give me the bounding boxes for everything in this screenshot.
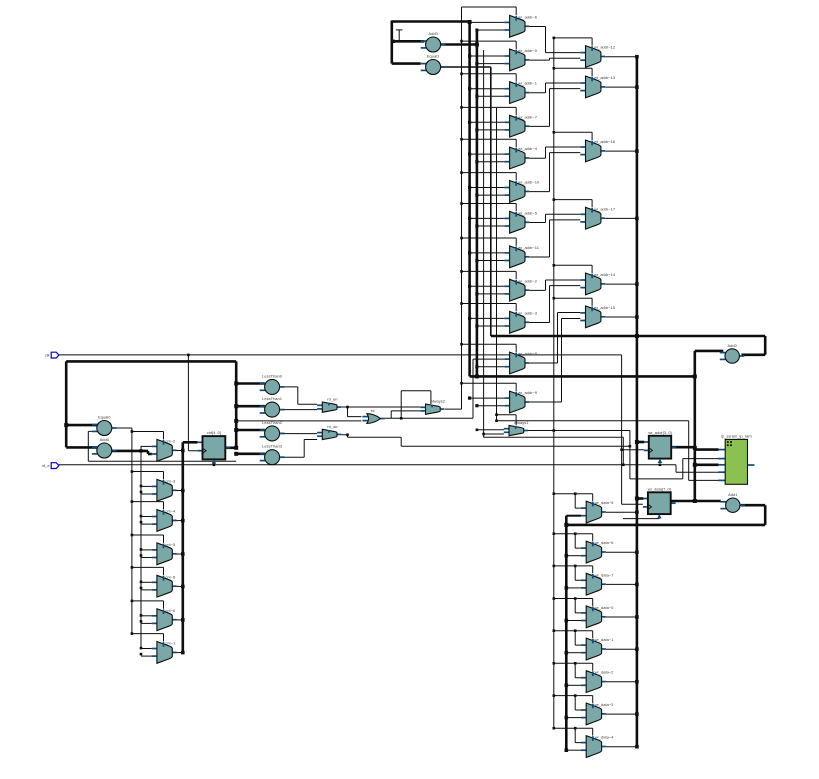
svg-text:rd: rd [371, 408, 375, 413]
mux U_L7 [504, 217, 509, 219]
wire wr_data~2 bottom in [566, 684, 581, 686]
svg-text:always1: always1 [514, 420, 529, 425]
input pin rd_e [51, 463, 59, 469]
junction out d5 [635, 510, 639, 514]
svg-text:wr_addr~4: wr_addr~4 [518, 146, 538, 151]
junction L12 bottom in [475, 404, 478, 407]
junction bin d7 [565, 586, 569, 590]
wire select mux L3 [462, 74, 517, 82]
wire wr_data~4 bottom in [566, 749, 581, 751]
mux U_R5 [580, 279, 585, 281]
wire cnt~5 output [172, 553, 183, 555]
wire L7 out to R4 [529, 214, 580, 222]
junction reg1 out [693, 446, 697, 450]
junction rd_do out [346, 434, 349, 437]
wire cnt bus V236 [235, 361, 238, 447]
svg-text:wr_addr~9: wr_addr~9 [518, 390, 538, 395]
junction sel d6 [553, 532, 556, 535]
junction T/Add3 [392, 40, 395, 43]
ram lp_ssram_lp_ram [718, 449, 725, 451]
junction cnt reg out [234, 446, 238, 450]
wire R1 output [605, 56, 637, 58]
wire reg2 data tap [637, 497, 644, 500]
wire L2 top input [470, 55, 505, 57]
junction V566 Add1 [564, 523, 568, 527]
wire select cnt~4 [132, 502, 164, 510]
wire or input2 [236, 420, 361, 422]
wire to Add0 input [66, 446, 97, 449]
wire select wr_data~1 [554, 631, 593, 638]
wire wr_data~6 output [606, 551, 637, 553]
svg-text:clk: clk [45, 353, 50, 358]
wire cnt~8 output [172, 652, 183, 654]
svg-text:wr_addr~2: wr_addr~2 [518, 278, 538, 283]
svg-text:wr_addr~13: wr_addr~13 [594, 75, 616, 80]
wire reg1 data tap [637, 441, 644, 444]
operator Add3 [421, 40, 427, 42]
wire cnt to LessThan0 [236, 382, 265, 385]
svg-text:wr_data~0: wr_data~0 [595, 605, 615, 610]
wire select mux L4 [462, 107, 517, 115]
junction select L6 [460, 171, 463, 174]
junction select R3 [553, 131, 556, 134]
junction tin d5 [574, 492, 577, 495]
junction select L4 [460, 106, 463, 109]
wire R5 output [605, 283, 637, 285]
junction reg1 data [635, 440, 639, 444]
mux U_C2 [152, 485, 157, 487]
wire cnt input V141 [140, 446, 142, 648]
wire L11 bottom input [477, 366, 505, 368]
wire cnt~6 top input [141, 581, 152, 583]
junction Add3 out [475, 43, 479, 47]
junction sel d0 [553, 597, 556, 600]
wire cnt~4 output [172, 520, 183, 522]
wire wr_data~0 top in [575, 599, 581, 613]
junction cnt~8 out [181, 651, 185, 655]
wire clk net [59, 354, 622, 356]
junction or out branch [400, 417, 403, 420]
mux rd_en gate [317, 404, 322, 406]
junction cnt LessThan1 [234, 404, 238, 408]
mux U_L4 [504, 121, 509, 123]
junction L2 bottom in [475, 62, 478, 65]
wire clk to wr_data reg [622, 503, 643, 505]
junction select L5 [460, 138, 463, 141]
junction tin d4 [574, 727, 577, 730]
wire cnt reg data [183, 441, 198, 444]
svg-text:cnt~6: cnt~6 [165, 574, 176, 579]
junction L4 top in [468, 121, 471, 124]
wire select mux R3 [554, 132, 592, 140]
wire select mux L9 [462, 271, 517, 279]
svg-text:LessThan3: LessThan3 [262, 444, 283, 449]
register wr_addr[3..0] [644, 441, 649, 443]
junction y421 [495, 419, 498, 422]
junction bin d3 [565, 716, 569, 720]
wire select mux L5 [462, 139, 517, 147]
junction always1 in1 [476, 429, 479, 432]
svg-text:wr_data~5: wr_data~5 [595, 500, 615, 505]
svg-text:wr_addr~5: wr_addr~5 [518, 210, 538, 215]
wire cnt~7 top input [141, 615, 152, 617]
mux U_D3 [581, 579, 586, 581]
mux U_L6 [504, 187, 509, 189]
wire select wr_data~6 [554, 534, 593, 541]
register wr_data[7..0] [643, 498, 648, 500]
svg-text:wr_addr~3: wr_addr~3 [518, 310, 538, 315]
junction R2 out [635, 85, 639, 89]
junction sel d4 [553, 727, 556, 730]
junction sel d5 [553, 492, 556, 495]
svg-text:LessThan0: LessThan0 [262, 373, 283, 378]
junction L5 top in [468, 153, 471, 156]
junction L8 bottom in [475, 259, 478, 262]
junction tin d6 [574, 532, 577, 535]
wire L10 out to R5 [529, 286, 580, 323]
svg-text:LessThan1: LessThan1 [262, 396, 283, 401]
wire select cnt~5 [132, 535, 164, 543]
junction out d1 [635, 647, 639, 651]
wire Add2 out loop [741, 336, 765, 355]
wire cnt to LessThan1 [236, 405, 265, 408]
svg-text:wr_data~4: wr_data~4 [595, 735, 615, 740]
junction cnt~3 bin [140, 491, 143, 494]
wire clk to cnt reg [188, 355, 197, 451]
wire always2 select [401, 391, 431, 419]
wire rd_e net [59, 464, 676, 466]
junction clk reg1 [620, 448, 623, 451]
mux U_C6 [152, 615, 157, 617]
mux U_D1 [581, 507, 586, 509]
wire select mux L7 [462, 204, 517, 212]
wire wr_data~7 bottom in [566, 587, 581, 589]
wire select wr_data~7 [554, 566, 593, 573]
operator LessThan1 [260, 405, 266, 407]
wire L9 top input [470, 285, 505, 287]
svg-text:wr_data~2: wr_data~2 [595, 670, 615, 675]
wire thick bus y376 [470, 375, 695, 378]
junction cnt~6 tin [140, 581, 143, 584]
junction cnt~3 out [181, 489, 185, 493]
mux U_L3 [504, 88, 509, 90]
junction or in2 [234, 419, 238, 423]
wire cnt~6 bottom input [141, 589, 152, 591]
wire select mux L1 [462, 7, 517, 15]
wire cnt out bus V183 [182, 442, 185, 652]
junction L9 bottom in [475, 292, 478, 295]
mux U_D2 [581, 547, 586, 549]
wire V630 down [629, 446, 631, 479]
wire cnt~4 top input [141, 516, 152, 518]
wire LessThan3 out [280, 440, 318, 458]
junction select L8 [460, 237, 463, 240]
input pin clk [51, 352, 59, 358]
wire always1 in2 [484, 433, 504, 435]
wire select mux L10 [462, 304, 517, 312]
wire L1 bottom input [477, 29, 505, 31]
junction sel cnt~6 [131, 566, 134, 569]
wire R3 output [605, 150, 637, 152]
wire Equal0 bottom link [88, 431, 236, 461]
junction tin d7 [574, 565, 577, 568]
mux U_R2 [580, 82, 585, 84]
wire always2 out [445, 408, 462, 410]
svg-text:rd_e: rd_e [42, 463, 51, 468]
junction L2 top in [468, 54, 471, 57]
wire rd_e to ram [676, 465, 720, 472]
mux U_L1 [504, 21, 509, 23]
junction ram stub3 [693, 463, 697, 467]
junction cnt~5 tin [140, 548, 143, 551]
wire select mux L11 [462, 344, 517, 352]
junction L8 top in [468, 251, 471, 254]
wire L10 top input [470, 317, 505, 319]
junction y336 x637 [635, 334, 639, 338]
junction out d4 [635, 745, 639, 749]
wire output bus V637 [636, 56, 639, 748]
junction L10 top in [468, 317, 471, 320]
wire ram stub1 feed [695, 448, 719, 451]
wire reg2 out to Add1 [671, 500, 721, 503]
mux always1 [504, 428, 509, 430]
junction L6 bottom in [475, 194, 478, 197]
junction cnt~4 bin [140, 521, 143, 524]
wire L3 top input [470, 88, 505, 90]
wire branch to or in1 [348, 407, 362, 417]
junction out d2 [635, 680, 639, 684]
mux U_C1 [152, 445, 157, 447]
svg-text:cnt~1: cnt~1 [165, 641, 176, 646]
wire top-left bus top edge [392, 20, 470, 23]
junction clk branch [187, 354, 190, 357]
wire L4 out to R2 [529, 89, 580, 127]
wire clk V622 [621, 355, 623, 504]
junction cnt~2 out [181, 449, 185, 453]
wire L3 out to R2 [529, 83, 580, 93]
wire cnt~2 output [172, 450, 183, 452]
wire L10 bottom input [477, 325, 505, 327]
wire select bus V461 [461, 7, 463, 409]
wire to Equal0 input [66, 424, 97, 427]
wire L1 top input [470, 21, 505, 23]
wire L7 top input [470, 217, 505, 219]
svg-text:LessThan2: LessThan2 [262, 420, 283, 425]
wire wr_data~5 output [606, 511, 637, 513]
junction V469 top [468, 20, 472, 24]
wire cnt~3 bottom input [141, 493, 152, 495]
wire top-left bus bottom edge to Equal1 [392, 62, 421, 65]
junction select R5 [553, 264, 556, 267]
wire select mux R1 [554, 38, 592, 46]
wire rd_en out to always2 [341, 406, 420, 408]
junction select L3 [460, 73, 463, 76]
mux U_D6 [581, 677, 586, 679]
wire wr_data~7 top in [575, 566, 581, 580]
mux U_D4 [581, 612, 586, 614]
svg-text:lp_ssram_lp_ram: lp_ssram_lp_ram [721, 433, 752, 438]
wire cnt~4 bottom input [141, 523, 152, 525]
wire to Add3 input [392, 40, 425, 43]
svg-text:wr_addr[3..0]: wr_addr[3..0] [648, 430, 671, 435]
operator Add0 [92, 446, 98, 448]
junction sel d7 [553, 565, 556, 568]
svg-text:wr_addr~10: wr_addr~10 [518, 180, 540, 185]
junction cnt~8 bin [140, 653, 143, 656]
junction bin d4 [565, 748, 569, 752]
svg-text:wr_addr~1: wr_addr~1 [518, 81, 538, 86]
wire reg2 aclr link [623, 518, 659, 520]
wire LessThan2 out [280, 433, 318, 435]
wire always1 out [526, 431, 630, 447]
wire wr_data~5 top in [575, 494, 581, 508]
junction R4 out [635, 217, 639, 221]
wire select mux R4 [554, 200, 592, 208]
wire L5 out to R3 [529, 147, 580, 158]
mux U_D8 [581, 742, 586, 744]
wire ram wrap stub2 [630, 459, 720, 479]
junction select R1 [553, 37, 556, 40]
junction bin d1 [565, 651, 569, 655]
wire L11 top input [473, 359, 504, 418]
wire cnt~7 output [172, 619, 183, 621]
junction aclr cnt [213, 464, 216, 467]
svg-text:Add3: Add3 [428, 31, 438, 36]
svg-text:cnt[4..0]: cnt[4..0] [207, 430, 221, 435]
wire L9 out to R5 [529, 280, 580, 290]
wire always2 bottom input [391, 411, 420, 418]
junction sel d1 [553, 629, 556, 632]
wire select wr_data~3 [554, 696, 593, 703]
wire reg1 out [671, 446, 695, 449]
wire L5 bottom input [477, 161, 505, 163]
wire Equal0 output [112, 427, 132, 429]
junction sel cnt~8 [131, 632, 134, 635]
wire wr_data~3 output [606, 713, 637, 715]
wire select wr_data~0 [554, 599, 593, 606]
junction select L10 [460, 302, 463, 305]
wire wr_data~5 bottom in [566, 515, 581, 517]
junction L4 bottom in [475, 128, 478, 131]
junction L10 bottom in [475, 324, 478, 327]
junction L9 top in [468, 285, 471, 288]
svg-text:Add2: Add2 [728, 343, 738, 348]
wire wr_data~1 bottom in [566, 652, 581, 654]
svg-text:wr_data~6: wr_data~6 [595, 540, 615, 545]
junction R6 out [635, 315, 639, 319]
wire select cnt~8 [132, 634, 164, 642]
wire Add3 output [441, 43, 477, 46]
junction select L12 [460, 382, 463, 385]
wire wr_data~0 bottom in [566, 620, 581, 622]
wire LessThan0 out [280, 387, 318, 404]
svg-text:wr_addr~16: wr_addr~16 [594, 139, 616, 144]
junction V477 top [475, 29, 478, 32]
wire Add2 input feed [695, 350, 724, 353]
junction select L2 [460, 40, 463, 43]
operator Add1 [720, 501, 726, 503]
mux U_L10 [504, 317, 509, 319]
mux U_R3 [580, 146, 585, 148]
wire cnt reg out [225, 446, 236, 449]
wire y421 to ram stub5 [497, 421, 721, 481]
net stub T [396, 30, 403, 41]
wire wr_data~4 output [606, 746, 637, 748]
wire top-left bus left edge [390, 21, 393, 64]
junction L12 top in [468, 397, 471, 400]
wire L12 top input [470, 397, 505, 399]
svg-text:cnt~2: cnt~2 [165, 438, 176, 443]
junction select R6 [553, 297, 556, 300]
wire Add0 output [112, 451, 152, 454]
wire select cnt~6 [132, 567, 164, 575]
junction tin d0 [574, 597, 577, 600]
junction cnt~7 bin [140, 620, 143, 623]
wire wr_data~6 bottom in [566, 555, 581, 557]
operator Equal1 [421, 63, 427, 65]
wire cnt~5 bottom input [141, 557, 152, 559]
junction sel cnt~7 [131, 600, 134, 603]
junction L3 top in [468, 87, 471, 90]
wire select bus V554 [553, 38, 555, 728]
wire R2 output [605, 86, 637, 88]
junction tin d1 [574, 629, 577, 632]
wire select cnt~7 [132, 601, 164, 609]
junction R3 out [635, 149, 639, 153]
wire cnt~6 output [172, 585, 183, 587]
junction sel cnt~2 [131, 430, 134, 433]
operator LessThan3 [260, 453, 266, 455]
svg-text:wr_addr~12: wr_addr~12 [594, 45, 616, 50]
wire cnt~3 output [172, 490, 183, 492]
wire L6 out to R3 [529, 153, 580, 192]
junction cnt~7 tin [140, 614, 143, 617]
wire L8 top input [470, 252, 505, 254]
svg-text:wr_data~1: wr_data~1 [595, 637, 615, 642]
mux U_R1 [580, 52, 585, 54]
mux U_L5 [504, 153, 509, 155]
wire wr_data~4 top in [575, 728, 581, 742]
wire select wr_data~5 [554, 494, 593, 501]
svg-text:cnt~5: cnt~5 [165, 542, 176, 547]
wire y437 mesh [484, 437, 624, 465]
wire always1 select [497, 415, 517, 426]
wire select mux R5 [554, 265, 592, 273]
junction cnt~3 tin [140, 485, 143, 488]
wire L8 out to R4 [529, 220, 580, 257]
wire V695 thick [693, 351, 696, 501]
or-gate rd [362, 416, 368, 418]
junction aclr reg1 [659, 464, 662, 467]
wire wrdata in bus V566 [565, 516, 568, 751]
wire select mux L2 [462, 41, 517, 49]
svg-text:rd_do: rd_do [327, 424, 338, 429]
junction select L9 [460, 270, 463, 273]
junction L5 bottom in [475, 160, 478, 163]
junction cnt~7 out [181, 618, 185, 622]
junction always1 out sel [553, 429, 556, 432]
wire wr_data~2 output [606, 681, 637, 683]
mux U_L9 [504, 285, 509, 287]
svg-text:cnt~3: cnt~3 [165, 478, 176, 483]
wire bus V497 [496, 108, 498, 421]
junction out d7 [635, 583, 639, 587]
junction L3 bottom in [475, 95, 478, 98]
wire select cnt~3 [132, 472, 164, 480]
wire L2 bottom input [477, 63, 505, 65]
wire select mux L12 [462, 383, 517, 391]
junction cnt~4 out [181, 519, 185, 523]
